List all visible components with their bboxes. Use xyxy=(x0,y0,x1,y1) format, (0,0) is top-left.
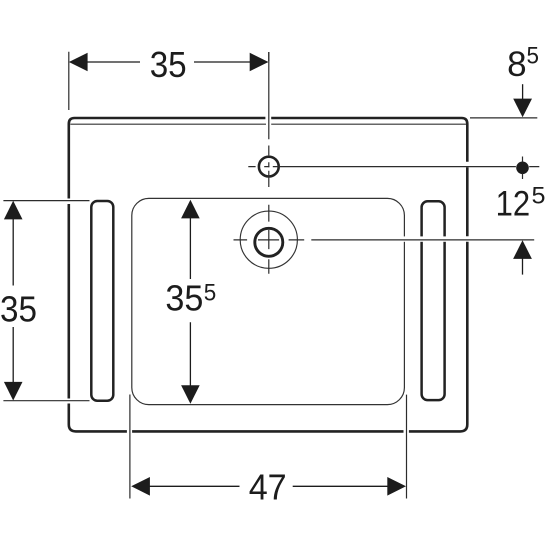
left slot xyxy=(91,201,113,401)
svg-text:35: 35 xyxy=(0,289,37,330)
svg-text:5: 5 xyxy=(204,280,217,307)
dimension 35 top: dimension line xyxy=(71,61,268,63)
dimension 8.5: arrow shaft xyxy=(522,84,524,99)
svg-text:5: 5 xyxy=(527,42,540,69)
dimension 8.5 right top: extension line xyxy=(470,117,537,119)
dimension 35.5: down arrowhead xyxy=(181,385,200,404)
drain inner circle xyxy=(255,228,283,256)
drain vertical center line xyxy=(268,205,270,274)
svg-text:47: 47 xyxy=(249,467,287,508)
dimension 47 bottom: right arrowhead xyxy=(387,477,406,496)
svg-text:35: 35 xyxy=(150,44,187,85)
svg-text:5: 5 xyxy=(532,183,546,210)
dimension 47 bottom: left arrowhead xyxy=(131,477,150,496)
dimension 35 top: left arrowhead xyxy=(69,53,88,72)
svg-text:12: 12 xyxy=(496,185,530,224)
dimension 35 top: right arrowhead xyxy=(250,53,269,72)
tap hole horizontal center line xyxy=(248,166,539,168)
svg-text:35: 35 xyxy=(165,277,203,318)
drain horizontal center line xyxy=(234,239,535,241)
dimension 35 left: down arrowhead xyxy=(4,382,23,401)
dimension 12.5: arrowhead up xyxy=(513,240,532,259)
dimension 47 bottom: dimension line xyxy=(133,485,404,487)
svg-text:8: 8 xyxy=(507,45,526,84)
washbasin outer outline xyxy=(69,118,468,431)
dimension 12.5: arrow shaft xyxy=(522,259,524,275)
dimension 35 left: extension lines xyxy=(3,201,89,401)
inner basin bowl outline xyxy=(132,198,405,404)
gap patch where drain line crosses inner edge and right slot xyxy=(402,236,448,241)
dimension 35 top: extension lines xyxy=(69,52,269,110)
drain outer circle xyxy=(240,211,297,268)
dimension 12.5: dot center ticks xyxy=(522,157,524,180)
washbasin rear edge thin line xyxy=(70,123,466,125)
tap hole vertical center line xyxy=(268,52,270,187)
dimension 35 left: up arrowhead xyxy=(4,201,23,220)
dimension 35.5 inner: dimension line xyxy=(189,217,191,386)
dimension 12.5 right: dot at tap line xyxy=(516,162,529,175)
dimension 47 bottom: extension lines xyxy=(130,395,407,499)
tap hole circle xyxy=(259,157,279,177)
right slot xyxy=(422,201,445,400)
dimension 35.5: up arrowhead xyxy=(181,200,200,219)
dimension 8.5: arrowhead down xyxy=(513,99,532,118)
dimension 35 left: dimension line xyxy=(12,217,14,382)
